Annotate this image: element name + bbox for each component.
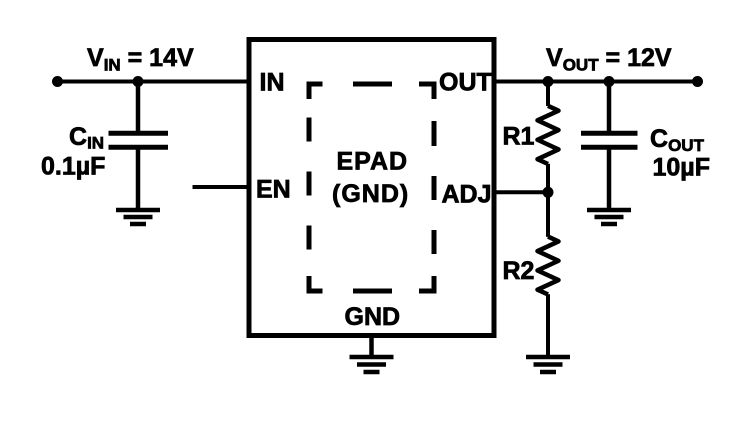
- ground for R2: [526, 357, 570, 372]
- svg-text:10µF: 10µF: [653, 154, 710, 182]
- node CIN junction: [133, 76, 144, 87]
- wire GND pin stem: [369, 336, 374, 356]
- capacitor C2 COUT top lead: [607, 82, 612, 132]
- wire ADJ to divider: [494, 190, 548, 194]
- node COUT junction: [604, 76, 615, 87]
- svg-text:VIN = 14V: VIN = 14V: [87, 44, 194, 75]
- ground for GND pin: [350, 357, 394, 372]
- svg-text:OUT: OUT: [439, 69, 492, 97]
- svg-text:R2: R2: [503, 257, 535, 285]
- capacitor C1 CIN plates: [109, 131, 169, 136]
- ground for CIN: [116, 210, 160, 224]
- capacitor C1 CIN bottom lead: [136, 150, 141, 211]
- wire input to IN pin: [58, 80, 250, 84]
- svg-text:0.1µF: 0.1µF: [41, 153, 105, 181]
- wire OUT to output terminal: [494, 80, 698, 84]
- svg-text:EN: EN: [256, 176, 291, 204]
- node R1 top junction: [543, 76, 554, 87]
- node output terminal: [692, 76, 703, 87]
- wire EN stub: [193, 185, 250, 189]
- svg-text:IN: IN: [260, 69, 285, 97]
- resistor R1: [538, 82, 559, 193]
- node VIN input terminal: [52, 76, 63, 87]
- capacitor C1 CIN top lead: [136, 82, 141, 132]
- svg-text:EPAD: EPAD: [337, 148, 409, 176]
- node ADJ junction: [543, 187, 554, 198]
- resistor R2: [538, 192, 559, 355]
- op-amp U1 regulator body: [249, 40, 494, 336]
- svg-text:ADJ: ADJ: [442, 181, 492, 209]
- ground for COUT: [587, 210, 631, 224]
- EPAD dashed outline: [309, 84, 434, 291]
- capacitor C2 COUT plates: [581, 131, 638, 136]
- svg-text:GND: GND: [345, 303, 401, 331]
- svg-text:(GND): (GND): [332, 180, 409, 208]
- capacitor C2 COUT bottom lead: [607, 150, 612, 211]
- svg-text:R1: R1: [503, 123, 535, 151]
